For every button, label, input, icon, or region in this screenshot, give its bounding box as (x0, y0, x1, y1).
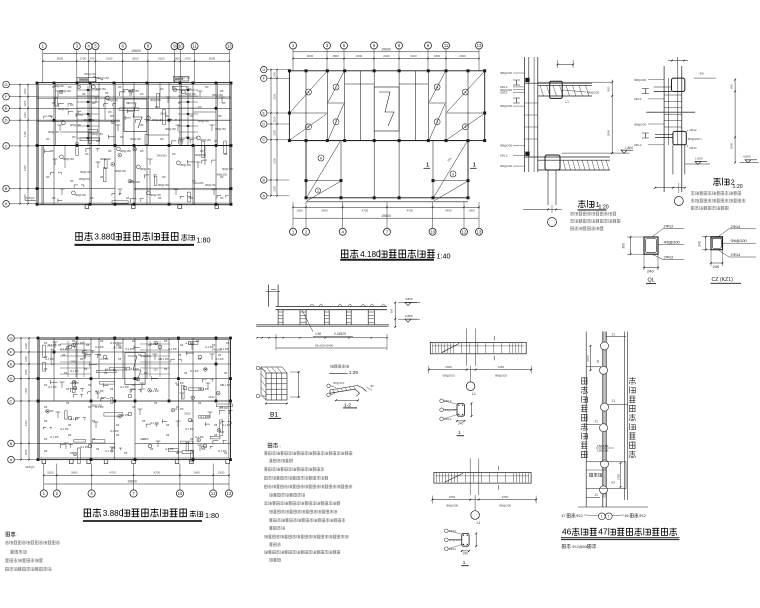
1-2 right tick (367, 387, 373, 391)
svg-text:JL1 Φ8: JL1 Φ8 (110, 429, 119, 433)
middle notes: 说明 heading (268, 443, 278, 448)
svg-text:Φ6@200: Φ6@200 (587, 91, 599, 95)
svg-text:2600: 2600 (459, 54, 466, 58)
plan2 bottom overall dim (293, 217, 479, 219)
svg-text:JL1 Φ8: JL1 Φ8 (80, 445, 89, 449)
svg-text:47: 47 (562, 514, 566, 518)
svg-text:A: A (263, 194, 266, 198)
plan2 upper block interior verticals (305, 71, 307, 141)
svg-text:10: 10 (430, 229, 435, 234)
plan3 small circles (68, 345, 72, 349)
svg-text:Φ6@200: Φ6@200 (731, 238, 748, 243)
D1 title 大样1 1:20 (578, 200, 594, 208)
title: 标高3.880层板结构布置图(底板) 1:80 (84, 508, 101, 516)
D1 mid reference line (538, 81, 611, 83)
svg-text:3100: 3100 (106, 57, 113, 61)
svg-text:2800: 2800 (607, 129, 611, 136)
svg-text:240x300: 240x300 (141, 354, 152, 358)
plan3 stair shaft (125, 353, 145, 385)
svg-text:1200: 1200 (23, 100, 27, 106)
svg-text:2Φ12: 2Φ12 (634, 143, 642, 147)
svg-text:150 150: 150 150 (597, 448, 608, 452)
D2 top slab left (654, 86, 672, 88)
svg-text:1200: 1200 (23, 88, 27, 94)
beam L1a elevation outline (430, 342, 526, 353)
svg-text:19600: 19600 (381, 48, 391, 52)
svg-text:2400: 2400 (445, 209, 452, 213)
svg-text:2Φ12: 2Φ12 (71, 359, 78, 363)
svg-text:4700: 4700 (109, 471, 116, 475)
D2 lower slab left (655, 133, 673, 135)
plan1 stair shaft (124, 99, 147, 131)
B1 axono left face (261, 367, 266, 400)
plan3 column squares (37, 337, 40, 340)
svg-text:Φ12: Φ12 (639, 514, 646, 518)
svg-text:1200: 1200 (23, 112, 27, 118)
MS ground line (256, 324, 389, 326)
D2 right vertical dim (734, 80, 736, 163)
svg-text:JL1 Φ8: JL1 Φ8 (125, 347, 134, 351)
svg-text:Φ8@150: Φ8@150 (97, 76, 109, 80)
svg-text:1700: 1700 (184, 57, 191, 61)
QL rebar leader lines and labels (652, 229, 663, 238)
svg-text:JL1 Φ8: JL1 Φ8 (75, 341, 84, 345)
plan3 dense cluster right (140, 343, 170, 345)
svg-text:700: 700 (90, 57, 95, 61)
svg-text:13: 13 (477, 229, 482, 234)
plan1 top axis lines (42, 50, 44, 83)
svg-text:2Φ12: 2Φ12 (500, 91, 508, 95)
beam L1b elevation outline (434, 472, 531, 483)
svg-text:J1: J1 (612, 399, 616, 403)
svg-text:240: 240 (713, 264, 720, 269)
D1 right vertical dimension (611, 80, 613, 153)
title1 underline (75, 244, 195, 246)
svg-text:B: B (5, 186, 8, 191)
beam L1a bent bar diagonal (441, 343, 459, 352)
C47 bottom circles (598, 513, 605, 520)
svg-text:B: B (263, 178, 266, 182)
svg-text:2400: 2400 (321, 209, 328, 213)
svg-text:CZ (KZ1): CZ (KZ1) (712, 277, 734, 283)
svg-text:1-2: 1-2 (344, 402, 351, 408)
svg-text:920: 920 (390, 308, 394, 313)
svg-text:1: 1 (608, 515, 610, 519)
svg-text:Φ6@200: Φ6@200 (444, 408, 456, 412)
svg-text:1650: 1650 (498, 365, 505, 369)
svg-text:Φ8@150: Φ8@150 (92, 132, 103, 136)
MS bottom dim line (257, 337, 387, 339)
svg-text:2400: 2400 (383, 54, 390, 58)
svg-text:JL1 Φ8: JL1 Φ8 (48, 385, 57, 389)
svg-text:D: D (5, 118, 8, 123)
svg-text:1: 1 (601, 515, 603, 519)
beam L1a stirrup ticks (432, 343, 434, 353)
svg-text:E: E (5, 106, 8, 111)
title2 underline (340, 259, 434, 261)
plan3 bottom axis bubbles (40, 490, 47, 497)
svg-text:JL1 Φ8: JL1 Φ8 (215, 357, 224, 361)
svg-text:240: 240 (647, 269, 654, 274)
svg-text:3.880: 3.880 (405, 314, 413, 318)
plan2 left dim lines (270, 70, 272, 196)
MS bottom total dim (276, 347, 387, 349)
svg-text:Φ8@150: Φ8@150 (75, 193, 86, 197)
svg-text:Φ8@150: Φ8@150 (150, 98, 161, 102)
svg-text:E: E (263, 111, 266, 115)
svg-text:A: A (10, 457, 13, 462)
svg-text:1650: 1650 (445, 365, 452, 369)
svg-text:Φ8@150: Φ8@150 (195, 153, 206, 157)
title3 underline (83, 520, 202, 522)
plan1 left axis bubbles G F E D C B A (3, 81, 10, 88)
D2 level flags (695, 162, 701, 165)
svg-text:2-2#5Z5: 2-2#5Z5 (334, 332, 346, 336)
svg-text::: : (17, 532, 18, 537)
plan1 column stubs below (85, 204, 89, 208)
plan3 bottom dim line 1 (44, 474, 229, 476)
svg-text:4Φ8@2: 4Φ8@2 (25, 465, 35, 469)
svg-text:L1: L1 (477, 521, 481, 525)
svg-text:1.800: 1.800 (625, 146, 633, 150)
C47 lower box detail (586, 462, 626, 489)
svg-text:Φ8@200: Φ8@200 (500, 71, 512, 75)
C47 baseline (578, 506, 648, 508)
svg-text:1200: 1200 (23, 131, 27, 137)
svg-text:46: 46 (562, 527, 572, 537)
C47 connection stubs and J1 labels (586, 366, 601, 368)
section QL: beam cross-section with rebar (644, 237, 658, 254)
svg-text:Φ8@150: Φ8@150 (222, 167, 233, 171)
svg-text:JL1 Φ8: JL1 Φ8 (222, 383, 231, 387)
svg-text:2Φ14: 2Φ14 (731, 224, 742, 229)
svg-text:Φ8@150: Φ8@150 (152, 118, 163, 122)
beam L1a section callouts (440, 399, 444, 403)
plan3 scattered tick marks (54, 342, 56, 348)
MS right level flags (405, 303, 411, 306)
beam L1a section dims (471, 403, 473, 416)
svg-text:Φ6@200: Φ6@200 (446, 504, 458, 508)
svg-text:Φ6@200: Φ6@200 (664, 240, 681, 245)
svg-text:JL2 240: JL2 240 (113, 345, 123, 349)
svg-text:240x300: 240x300 (212, 348, 223, 352)
svg-text:1: 1 (463, 560, 466, 565)
plan1 top overall dimension line 19600 (43, 52, 230, 54)
D1 top slab (525, 82, 593, 84)
svg-text:Φ12: Φ12 (576, 514, 583, 518)
svg-text:19600: 19600 (131, 49, 141, 53)
plan1 top dimension line segments (43, 60, 230, 62)
svg-text:Φ8@150: Φ8@150 (120, 149, 131, 153)
svg-text:240: 240 (458, 422, 464, 426)
beam L1b stirrup cross-section (462, 533, 469, 546)
plan3 bottom total dim 19600 (44, 483, 229, 485)
plan3 column stubs below (42, 460, 46, 464)
D1 column below (547, 170, 549, 205)
svg-text:240: 240 (463, 552, 469, 556)
svg-text:1.800: 1.800 (695, 157, 703, 161)
svg-text:3100: 3100 (410, 54, 417, 58)
notes under plan3: 说明 heading (6, 532, 16, 537)
svg-text:800: 800 (175, 57, 180, 61)
svg-text:1:25: 1:25 (349, 370, 358, 375)
plan3 interior verticals (53, 338, 55, 401)
C47 top stub (606, 335, 626, 337)
svg-text:JL1 Φ8: JL1 Φ8 (165, 447, 174, 451)
plan1 extra partial walls (60, 131, 90, 133)
MS left wall verticals (267, 285, 269, 307)
svg-text:1:20: 1:20 (733, 184, 743, 190)
svg-text:13: 13 (227, 491, 232, 496)
beam L1b stirrup ticks (435, 473, 437, 482)
plan1 left dimension lines (19, 85, 21, 204)
svg-text:JL1 Φ8: JL1 Φ8 (190, 369, 199, 373)
svg-text:Φ8@200: Φ8@200 (333, 381, 345, 385)
subnote under title4 (562, 544, 571, 548)
svg-text::: : (280, 443, 281, 448)
svg-text:JL1 Φ8: JL1 Φ8 (95, 345, 104, 349)
svg-text:2Φ12: 2Φ12 (208, 395, 215, 399)
svg-text:B1: B1 (270, 412, 278, 419)
svg-text:1: 1 (317, 189, 319, 193)
svg-text:A: A (5, 201, 8, 206)
svg-text:1:40: 1:40 (437, 252, 451, 261)
CZ rebar leaders and labels (718, 229, 729, 237)
svg-text:2100: 2100 (273, 185, 277, 191)
svg-text:1800: 1800 (332, 54, 339, 58)
svg-text:2Φ14: 2Φ14 (449, 547, 457, 551)
svg-text:1800: 1800 (434, 54, 441, 58)
C47 left dim 2700 (590, 346, 592, 370)
D2 wall top tick (676, 57, 678, 66)
B1 detail: slab rebar mesh axono (266, 373, 287, 400)
svg-text:JL1 Φ8: JL1 Φ8 (130, 367, 139, 371)
D2 title 大样2 1:20 (713, 178, 729, 186)
svg-text:2Φ12: 2Φ12 (444, 417, 452, 421)
notes under plan3 lines (5, 541, 59, 545)
svg-text:Φ8@150: Φ8@150 (198, 119, 209, 123)
svg-text:2Φ12: 2Φ12 (160, 112, 167, 116)
svg-text:Φ8@150: Φ8@150 (165, 127, 176, 131)
B1 right dim (298, 372, 300, 397)
C47 bottom right label 46号楼Φ12 (612, 514, 624, 517)
title: 标高3.880层板结构布置图(顶板) 1:80 (75, 232, 92, 240)
plan2 column squares (288, 69, 291, 72)
beam L1b name circle (471, 511, 480, 520)
svg-text:2Φ12: 2Φ12 (47, 343, 54, 347)
plan2 bottom axis bubbles (290, 228, 297, 235)
svg-text:240: 240 (698, 241, 702, 247)
svg-text:19600: 19600 (381, 214, 391, 218)
plan2 bottom dim line (293, 206, 479, 208)
svg-text:4.180: 4.180 (360, 250, 381, 259)
svg-text:4700: 4700 (362, 209, 369, 213)
svg-text:Φ8: Φ8 (370, 384, 374, 388)
plan2 stair shaft (374, 87, 399, 131)
D2 below beam verticals (672, 145, 674, 175)
D2 top reference (694, 77, 716, 79)
QL left dim 300 (630, 237, 632, 254)
svg-text:Φ8@200: Φ8@200 (634, 78, 646, 82)
svg-text:C: C (262, 138, 265, 142)
svg-text:J1: J1 (596, 360, 600, 364)
plan2 slab diagonals and marks upper (290, 72, 326, 112)
svg-text:Φ8@150: Φ8@150 (205, 183, 216, 187)
plan1 interior walls upper zone (53, 83, 55, 146)
svg-text:19600: 19600 (127, 480, 137, 484)
slab section 1-2 (330, 386, 367, 392)
svg-text:2Φ12: 2Φ12 (500, 153, 508, 157)
svg-text:Φ8@200: Φ8@200 (500, 104, 512, 108)
svg-text:2100: 2100 (273, 129, 277, 135)
beam L1a axis lines (466, 328, 468, 365)
svg-text:240x300: 240x300 (193, 181, 204, 185)
svg-text:Φ8@150: Φ8@150 (129, 180, 140, 184)
svg-text:12: 12 (462, 229, 467, 234)
B1 bottom dim (266, 403, 287, 405)
plan1 interior clutter marks (125, 117, 131, 119)
plan1 top axis bubbles (39, 43, 46, 50)
svg-text:JL1 Φ8: JL1 Φ8 (160, 357, 169, 361)
svg-text:800: 800 (730, 84, 734, 89)
svg-text:2800: 2800 (730, 142, 734, 149)
svg-text:4:5: 4:5 (611, 481, 616, 485)
svg-text:JL1 Φ8: JL1 Φ8 (185, 427, 194, 431)
svg-text:JL1 Φ8: JL1 Φ8 (168, 347, 177, 351)
svg-text:J1: J1 (595, 419, 599, 423)
beam L1b dimension line (432, 499, 536, 501)
plan3 outer walls (38, 338, 231, 460)
MS beam band (276, 305, 387, 307)
MS hatch triangles on beam (310, 304, 315, 307)
svg-text:1:80: 1:80 (197, 236, 211, 245)
svg-text:Φ6@200: Φ6@200 (500, 164, 512, 168)
D1 black squares (beam anchors) (525, 78, 529, 82)
svg-text:1500: 1500 (47, 471, 54, 475)
svg-text:L1: L1 (472, 392, 476, 396)
svg-text:3.880: 3.880 (94, 233, 115, 242)
plan1 column squares (36, 82, 39, 85)
beam L1a name circle (466, 382, 475, 391)
svg-text:Φ8@150: Φ8@150 (84, 72, 96, 76)
svg-text:Φ8: Φ8 (700, 72, 704, 76)
svg-text:2400: 2400 (71, 471, 78, 475)
plan3 left dim lines (20, 338, 22, 460)
B1 axono top face (261, 367, 287, 373)
svg-text:2100: 2100 (273, 116, 277, 122)
svg-text:1500: 1500 (296, 209, 303, 213)
svg-text:Φ8@150: Φ8@150 (180, 163, 191, 167)
plan3 left axis bubbles (8, 335, 15, 342)
D2 wall verticals with ladder ties (663, 66, 665, 192)
D1 left rebar hook symbols (513, 80, 520, 85)
svg-text:47: 47 (598, 527, 608, 537)
svg-text:3100: 3100 (158, 57, 165, 61)
plan2 upper block outline (289, 71, 484, 141)
title: 标高4.180层结构布置图 1:40 (341, 249, 358, 257)
D1 lower beam (545, 155, 560, 170)
svg-text:3600: 3600 (209, 57, 216, 61)
svg-text:2100: 2100 (273, 93, 277, 99)
svg-text:2Φ14: 2Φ14 (731, 252, 742, 257)
svg-text:300: 300 (622, 243, 626, 249)
MS piers with hatch (277, 310, 279, 325)
plan2 left axis bubbles (261, 66, 267, 72)
D1 bottom dim and axis circle (523, 208, 562, 210)
svg-text:Φ8@150: Φ8@150 (212, 93, 223, 97)
svg-text:2100: 2100 (273, 71, 277, 77)
svg-text:1500: 1500 (218, 471, 225, 475)
svg-text:Φ8@150: Φ8@150 (48, 130, 59, 134)
plan2 lower block interior (340, 141, 342, 198)
C47 left vertical text 47号楼基础构造图 (581, 377, 587, 384)
svg-text:Φ8@150: Φ8@150 (185, 92, 196, 96)
svg-text:4700: 4700 (154, 471, 161, 475)
svg-text:JL2 240: JL2 240 (55, 119, 65, 123)
plan1 short dashes (57, 91, 59, 97)
plan2 top overall dimension 19600 (293, 51, 479, 53)
svg-text:3.880: 3.880 (103, 509, 124, 518)
title4 underline double (561, 537, 680, 539)
svg-text:3600: 3600 (57, 57, 64, 61)
svg-text:2700: 2700 (616, 474, 620, 480)
svg-text:11: 11 (192, 44, 197, 49)
plan2 top axis bubbles (290, 42, 297, 49)
D2 mid horizontal line (646, 111, 695, 113)
QL bottom dim 240 (643, 237, 645, 270)
svg-text:9: 9 (307, 125, 309, 129)
plan3 interior clutter marks (73, 381, 76, 393)
svg-text:JL1 Φ8: JL1 Φ8 (105, 449, 114, 453)
svg-text:J1: J1 (595, 493, 599, 497)
svg-text:Φ8@150: Φ8@150 (53, 84, 64, 88)
svg-text:2400: 2400 (193, 471, 200, 475)
svg-text:Φ8@150: Φ8@150 (70, 123, 81, 127)
svg-text:Φ8@200: Φ8@200 (634, 122, 646, 126)
svg-text:24x100=2400: 24x100=2400 (315, 343, 334, 347)
middle notes lines (264, 451, 352, 455)
svg-text:2600: 2600 (356, 54, 363, 58)
svg-text:1200: 1200 (24, 387, 28, 393)
beam L1b bent bar diagonal (445, 473, 463, 482)
1:25 scale label with leader (329, 373, 347, 375)
svg-text:Φ8@150: Φ8@150 (60, 89, 71, 93)
svg-text:Φ8@150: Φ8@150 (140, 167, 151, 171)
svg-text:3600: 3600 (307, 54, 314, 58)
svg-text:2Φ12: 2Φ12 (664, 255, 675, 260)
CZ left dim 240 (705, 237, 707, 250)
svg-text:1500: 1500 (468, 209, 475, 213)
svg-text:Φ8@150: Φ8@150 (80, 170, 91, 174)
svg-text:Φ6@200: Φ6@200 (442, 374, 454, 378)
svg-text:Φ8@150: Φ8@150 (63, 157, 74, 161)
svg-text:46: 46 (625, 514, 629, 518)
D2 lower beam (673, 131, 686, 144)
svg-text:1: 1 (426, 163, 429, 169)
D1 lower slab (525, 156, 611, 158)
C47 right vertical text 46号楼基础构造图 (629, 377, 636, 384)
plan1 interior walls lower zone (41, 146, 43, 205)
svg-text:3: 3 (452, 172, 454, 176)
plan2 lower block outline (306, 141, 468, 198)
svg-text:1200: 1200 (24, 356, 28, 362)
svg-text:JL1 Φ8: JL1 Φ8 (120, 385, 129, 389)
svg-text:2600: 2600 (132, 57, 139, 61)
svg-text:JL1 Φ8: JL1 Φ8 (70, 381, 79, 385)
svg-text:13: 13 (227, 44, 232, 49)
D2 notes (691, 191, 741, 195)
svg-text:2Φ12: 2Φ12 (184, 411, 191, 415)
